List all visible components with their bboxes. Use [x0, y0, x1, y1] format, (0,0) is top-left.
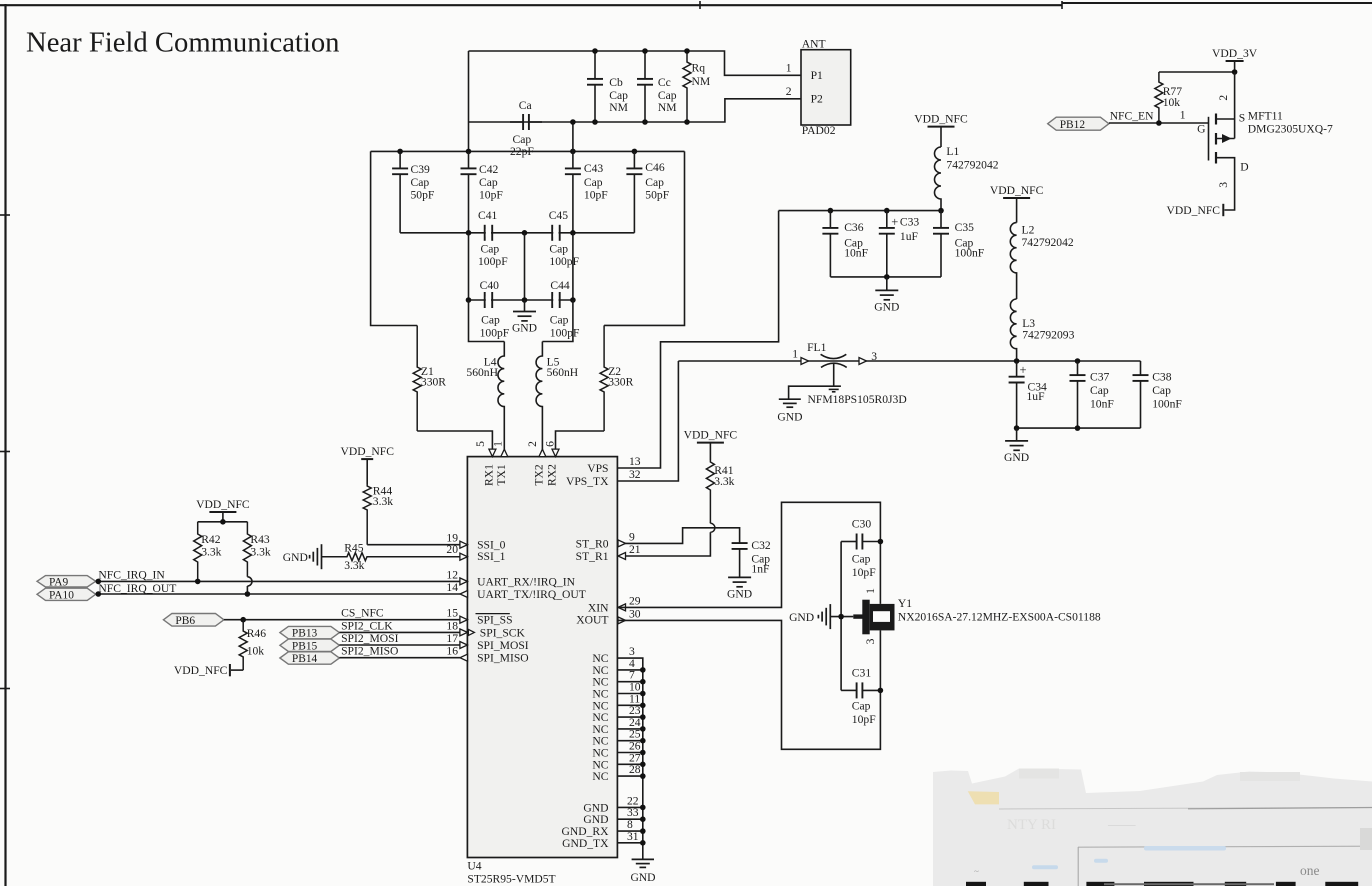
- svg-text:10pF: 10pF: [479, 188, 503, 201]
- capacitor Ca: [510, 114, 542, 130]
- svg-text:NC: NC: [592, 770, 608, 783]
- sheet frame left border: [4, 4, 6, 886]
- svg-text:Cap: Cap: [479, 176, 498, 189]
- pin 14 UART_TX: [460, 591, 468, 598]
- ic U4 ST25R95-VMD5T body: [467, 457, 617, 858]
- svg-text:P1: P1: [811, 69, 823, 82]
- pin 25 NC: [618, 740, 643, 742]
- svg-text:PA10: PA10: [49, 589, 74, 601]
- svg-text:SPI2_CLK: SPI2_CLK: [341, 619, 393, 632]
- svg-text:_____: _____: [1107, 815, 1136, 827]
- svg-text:Cap: Cap: [645, 176, 664, 189]
- svg-text:NM: NM: [658, 101, 677, 114]
- pin 9 ST_R0: [618, 540, 626, 547]
- svg-text:C40: C40: [480, 279, 500, 292]
- svg-text:VPS_TX: VPS_TX: [566, 475, 609, 488]
- svg-text:14: 14: [446, 581, 458, 594]
- svg-text:100pF: 100pF: [478, 255, 508, 268]
- wire XIN to crystal top: [618, 502, 880, 607]
- svg-text:C42: C42: [479, 163, 499, 176]
- svg-text:3.3k: 3.3k: [373, 495, 393, 508]
- wire rail2 y232.8: [400, 232, 634, 234]
- inductor L3: [1010, 299, 1016, 361]
- svg-text:100pF: 100pF: [480, 326, 510, 339]
- svg-text:C37: C37: [1090, 371, 1110, 384]
- pin 23 NC: [618, 716, 643, 718]
- svg-text:GND: GND: [727, 587, 752, 600]
- svg-text:10pF: 10pF: [584, 188, 608, 201]
- svg-text:Ca: Ca: [519, 99, 532, 112]
- capacitor C35: [933, 211, 949, 277]
- svg-text:VPS: VPS: [587, 462, 608, 475]
- svg-text:CS_NFC: CS_NFC: [341, 607, 384, 620]
- svg-text:PB15: PB15: [292, 640, 318, 652]
- pin 7 NC: [618, 681, 643, 683]
- svg-text:560nH: 560nH: [547, 366, 579, 379]
- svg-text:Cap: Cap: [550, 314, 569, 327]
- svg-text:G: G: [1197, 123, 1206, 136]
- svg-text:C30: C30: [852, 518, 872, 531]
- wire R42-R43 top rail: [198, 521, 248, 523]
- NC pin bus: [618, 658, 643, 859]
- svg-text:12: 12: [446, 568, 458, 581]
- svg-text:20: 20: [446, 543, 458, 556]
- pin 30 XOUT: [618, 617, 626, 624]
- svg-text:330R: 330R: [421, 376, 446, 389]
- svg-text:SSI_1: SSI_1: [477, 550, 506, 563]
- svg-text:GND: GND: [777, 410, 802, 423]
- svg-text:C41: C41: [478, 209, 498, 222]
- svg-text:Cap: Cap: [658, 89, 677, 102]
- svg-text:Near Field Communication: Near Field Communication: [26, 28, 340, 59]
- svg-text:2: 2: [1217, 95, 1230, 101]
- svg-text:330R: 330R: [608, 376, 633, 389]
- svg-text:C39: C39: [411, 163, 431, 176]
- svg-text:3: 3: [871, 350, 877, 363]
- capacitor Cc: [637, 51, 653, 122]
- svg-text:Cap: Cap: [481, 243, 500, 256]
- svg-text:XIN: XIN: [588, 601, 609, 614]
- antenna connector ANT PAD02: [801, 50, 851, 125]
- pin 2 TX2: [539, 449, 546, 457]
- svg-text:GND: GND: [874, 300, 899, 313]
- svg-text:C38: C38: [1152, 371, 1172, 384]
- svg-text:100nF: 100nF: [1152, 397, 1182, 410]
- pin 31 GND_TX: [618, 842, 643, 844]
- wire R44 to pin19: [367, 544, 460, 546]
- wire C30 C31 left vertical: [840, 542, 842, 691]
- svg-text:R43: R43: [250, 533, 270, 546]
- wire rail1 y151.4: [371, 150, 685, 152]
- capacitor C38: [1133, 361, 1149, 428]
- svg-text:RX2: RX2: [546, 464, 559, 486]
- wire VPS_TX net pin32 to FL1: [618, 361, 678, 481]
- resistor R77: [1155, 72, 1163, 123]
- capacitor C41: [484, 225, 486, 241]
- svg-text:ST_R1: ST_R1: [576, 550, 609, 563]
- svg-text:9: 9: [629, 530, 635, 543]
- svg-text:10pF: 10pF: [852, 566, 876, 579]
- svg-text:L2: L2: [1022, 223, 1035, 236]
- svg-text:C35: C35: [955, 221, 975, 234]
- svg-text:PB12: PB12: [1060, 119, 1086, 131]
- svg-text:100pF: 100pF: [549, 255, 579, 268]
- pin 26 NC: [618, 752, 643, 754]
- svg-text:10k: 10k: [247, 644, 265, 657]
- svg-text:MFT11: MFT11: [1248, 110, 1283, 123]
- resistor R43: [243, 522, 251, 577]
- svg-text:PA9: PA9: [49, 576, 69, 588]
- svg-text:SPI_MOSI: SPI_MOSI: [477, 639, 529, 652]
- svg-text:VDD_NFC: VDD_NFC: [340, 445, 394, 458]
- port PB15: [280, 639, 340, 651]
- svg-text:VDD_NFC: VDD_NFC: [914, 112, 968, 125]
- resistor Z1: [371, 151, 418, 325]
- wire VPS net from rail to pin13: [618, 211, 779, 468]
- ground below C34: [1016, 428, 1018, 441]
- svg-text:U4: U4: [467, 860, 481, 873]
- svg-text:1: 1: [491, 441, 504, 447]
- pin 28 NC: [618, 775, 643, 777]
- svg-text:Cap: Cap: [513, 133, 532, 146]
- pin 11 NC: [618, 704, 643, 706]
- wire R77 top: [1159, 71, 1235, 73]
- ground for R45: [321, 544, 323, 569]
- capacitor C30: [841, 534, 880, 550]
- svg-text:Cb: Cb: [609, 76, 623, 89]
- svg-text:1uF: 1uF: [1027, 390, 1046, 403]
- svg-text:+: +: [891, 215, 898, 229]
- svg-text:1: 1: [786, 62, 792, 75]
- svg-text:17: 17: [446, 632, 458, 645]
- wire FL1 rail y361: [678, 360, 1140, 362]
- svg-text:18: 18: [446, 619, 458, 632]
- svg-text:Cap: Cap: [481, 314, 500, 327]
- resistor R41: [706, 460, 714, 522]
- svg-text:1: 1: [864, 588, 877, 594]
- svg-text:2: 2: [526, 441, 539, 447]
- svg-text:PB6: PB6: [175, 615, 195, 627]
- resistor R44: [363, 484, 371, 545]
- capacitor C31: [841, 682, 880, 698]
- svg-text:C46: C46: [645, 161, 665, 174]
- pin 8 GND_RX: [618, 830, 643, 832]
- svg-text:VDD_NFC: VDD_NFC: [174, 664, 228, 677]
- svg-text:Rq: Rq: [692, 62, 706, 75]
- svg-text:GND: GND: [789, 611, 814, 624]
- svg-text:C44: C44: [550, 279, 570, 292]
- wire rail3 y300: [469, 299, 573, 301]
- svg-text:NFC_EN: NFC_EN: [1110, 109, 1154, 122]
- svg-text:Cc: Cc: [658, 76, 671, 89]
- svg-text:one: one: [1300, 863, 1320, 878]
- svg-text:10k: 10k: [1163, 96, 1181, 109]
- capacitor C34 polarized: [1009, 361, 1025, 428]
- port PA10: [37, 588, 96, 600]
- ground below cap ladder: [524, 300, 526, 312]
- port PA9: [37, 576, 96, 587]
- pin 6 RX2: [552, 449, 559, 457]
- resistor Rq: [683, 51, 691, 122]
- svg-text:Cap: Cap: [549, 243, 568, 256]
- svg-text:~: ~: [974, 867, 979, 877]
- pin 5 RX1: [489, 449, 496, 457]
- svg-text:28: 28: [629, 763, 641, 776]
- wire VPS rail y210.6: [779, 210, 941, 212]
- pin 20 SSI_1: [460, 553, 468, 560]
- watermark bottom strip glyph fragments: [966, 882, 986, 886]
- svg-text:NM: NM: [609, 101, 628, 114]
- pin 24 NC: [618, 728, 643, 730]
- pin 19 SSI_0: [460, 541, 468, 548]
- capacitor C33 polarized: [879, 211, 895, 277]
- svg-text:1: 1: [1180, 109, 1186, 122]
- port PB12: [1048, 117, 1109, 130]
- ground below C32: [739, 576, 741, 578]
- svg-text:3: 3: [864, 638, 877, 644]
- ground below U4: [632, 858, 654, 860]
- svg-text:C36: C36: [844, 221, 864, 234]
- svg-text:SPI_SCK: SPI_SCK: [480, 626, 526, 639]
- resistor Z2: [604, 151, 684, 325]
- capacitor C46: [626, 151, 642, 232]
- svg-text:+: +: [1020, 363, 1027, 377]
- inductor L2: [1010, 223, 1016, 299]
- svg-text:GND: GND: [630, 871, 655, 884]
- capacitor C44: [551, 292, 553, 308]
- svg-text:3: 3: [1217, 182, 1230, 188]
- svg-text:SPI_MISO: SPI_MISO: [477, 652, 529, 665]
- inductor L5: [542, 300, 573, 342]
- svg-text:VDD_NFC: VDD_NFC: [1167, 204, 1221, 217]
- capacitor C45: [551, 225, 553, 241]
- svg-text:100nF: 100nF: [955, 246, 985, 259]
- svg-text:10nF: 10nF: [844, 246, 868, 259]
- svg-text:GND: GND: [283, 551, 308, 564]
- svg-text:1uF: 1uF: [900, 230, 919, 243]
- port PB14: [280, 652, 340, 664]
- svg-text:PAD02: PAD02: [802, 124, 836, 137]
- svg-text:R42: R42: [201, 533, 221, 546]
- svg-text:D: D: [1240, 161, 1248, 174]
- svg-text:2: 2: [786, 85, 792, 98]
- svg-text:L1: L1: [946, 145, 959, 158]
- svg-text:R46: R46: [247, 627, 267, 640]
- svg-text:3.3k: 3.3k: [714, 475, 734, 488]
- capacitor C42: [461, 151, 477, 232]
- svg-text:C45: C45: [549, 209, 569, 222]
- resistor R45: [322, 553, 461, 561]
- pin 18 SPI_SCK: [460, 629, 468, 636]
- svg-text:ST_R0: ST_R0: [576, 537, 609, 550]
- pin 16 SPI_MISO: [460, 654, 468, 661]
- resistor R42: [194, 522, 202, 582]
- svg-text:SPI2_MOSI: SPI2_MOSI: [341, 632, 398, 645]
- svg-text:P2: P2: [811, 93, 823, 106]
- svg-text:VDD_3V: VDD_3V: [1212, 47, 1258, 60]
- svg-text:15: 15: [446, 607, 458, 620]
- power VDD_NFC at R46 bottom: [231, 669, 243, 671]
- pin 15 SPI_SS: [460, 616, 468, 623]
- svg-text:FL1: FL1: [807, 341, 827, 354]
- inductor L4: [469, 300, 505, 342]
- wire SPI2_MOSI: [339, 644, 460, 646]
- svg-text:21: 21: [629, 543, 641, 556]
- svg-text:GND: GND: [1004, 451, 1029, 464]
- svg-text:PB14: PB14: [292, 653, 318, 665]
- svg-text:29: 29: [629, 594, 641, 607]
- svg-text:TX2: TX2: [533, 464, 546, 485]
- inductor L1: [935, 147, 941, 211]
- capacitor C43: [565, 151, 581, 232]
- svg-text:30: 30: [629, 607, 641, 620]
- svg-text:UART_TX/!IRQ_OUT: UART_TX/!IRQ_OUT: [477, 588, 586, 601]
- pin 27 NC: [618, 763, 643, 765]
- wire SPI2_CLK: [339, 631, 460, 633]
- pin 17 SPI_MOSI: [460, 642, 468, 649]
- svg-text:10pF: 10pF: [852, 713, 876, 726]
- svg-text:GND_TX: GND_TX: [562, 837, 609, 850]
- wire pin9 to C32: [618, 528, 740, 544]
- svg-text:Cap: Cap: [852, 553, 871, 566]
- wire NFC_IRQ_IN: [96, 580, 460, 582]
- svg-text:50pF: 50pF: [645, 188, 669, 201]
- svg-text:S: S: [1239, 111, 1245, 124]
- pin 21 ST_R1: [618, 553, 626, 560]
- svg-text:XOUT: XOUT: [576, 614, 608, 627]
- crystal Y1 NX2016SA: [853, 614, 863, 618]
- wire XOUT to crystal bottom: [618, 620, 880, 749]
- wire top rail y51: [469, 51, 802, 75]
- svg-text:DMG2305UXQ-7: DMG2305UXQ-7: [1248, 123, 1333, 136]
- wire C36-C35 bottom rail: [830, 276, 941, 278]
- svg-text:1nF: 1nF: [751, 563, 770, 576]
- svg-text:PB13: PB13: [292, 628, 318, 640]
- svg-text:Cap: Cap: [411, 176, 430, 189]
- svg-text:3.3k: 3.3k: [201, 545, 221, 558]
- svg-text:NFM18PS105R0J3D: NFM18PS105R0J3D: [808, 393, 907, 406]
- svg-text:C33: C33: [900, 216, 920, 229]
- svg-text:ST25R95-VMD5T: ST25R95-VMD5T: [467, 873, 555, 886]
- svg-text:VDD_NFC: VDD_NFC: [684, 428, 738, 441]
- port PB6: [163, 614, 224, 627]
- svg-text:C43: C43: [584, 162, 604, 175]
- wire bottom rail C34-C38: [1017, 427, 1141, 429]
- svg-text:100pF: 100pF: [550, 326, 580, 339]
- pin 22 GND: [618, 806, 643, 808]
- svg-text:SPI2_MISO: SPI2_MISO: [341, 645, 398, 658]
- svg-text:32: 32: [629, 468, 641, 481]
- svg-text:UART_RX/!IRQ_IN: UART_RX/!IRQ_IN: [477, 575, 575, 588]
- svg-text:13: 13: [629, 455, 641, 468]
- svg-text:742792042: 742792042: [1022, 236, 1074, 249]
- capacitor C39: [392, 151, 408, 232]
- wire NFC_EN: [1109, 122, 1209, 124]
- wire C43 stub: [572, 122, 574, 151]
- svg-text:Cap: Cap: [609, 89, 628, 102]
- capacitor C32: [732, 541, 748, 578]
- svg-text:R45: R45: [344, 541, 364, 554]
- ground below C33: [886, 277, 888, 291]
- wire R41 to pin21 with hop: [709, 522, 711, 523]
- svg-text:NX2016SA-27.12MHZ-EXS00A-CS011: NX2016SA-27.12MHZ-EXS00A-CS01188: [898, 611, 1101, 624]
- svg-text:GND: GND: [512, 321, 537, 334]
- svg-text:560nH: 560nH: [466, 366, 498, 379]
- svg-text:Cap: Cap: [584, 176, 603, 189]
- svg-text:NTY RI: NTY RI: [1007, 817, 1056, 833]
- svg-text:Y1: Y1: [898, 597, 912, 610]
- port PB13: [280, 626, 340, 638]
- svg-text:NFC_IRQ_IN: NFC_IRQ_IN: [98, 569, 165, 582]
- svg-text:10nF: 10nF: [1090, 397, 1114, 410]
- pin 12 UART_RX: [460, 578, 468, 585]
- sheet frame top border: [0, 4, 1062, 6]
- pin 10 NC: [618, 693, 643, 695]
- svg-text:Cap: Cap: [852, 699, 871, 712]
- wire NFC_IRQ_OUT: [96, 593, 460, 595]
- pin 1 TX1: [501, 449, 508, 457]
- svg-text:ANT: ANT: [802, 37, 826, 50]
- svg-text:31: 31: [627, 830, 639, 843]
- svg-text:Cap: Cap: [1152, 384, 1171, 397]
- capacitor C40: [484, 292, 486, 308]
- capacitor C37: [1075, 358, 1081, 364]
- svg-text:RX1: RX1: [483, 464, 496, 486]
- svg-text:3.3k: 3.3k: [250, 545, 270, 558]
- svg-text:Cap: Cap: [1090, 384, 1109, 397]
- ground tap of FL1: [789, 386, 841, 399]
- pin 33 GND: [618, 818, 643, 820]
- pin 29 XIN: [618, 604, 626, 611]
- pin 4 NC: [618, 669, 643, 671]
- wire CS_NFC: [224, 619, 460, 621]
- svg-text:VDD_NFC: VDD_NFC: [990, 184, 1044, 197]
- svg-text:NFC_IRQ_OUT: NFC_IRQ_OUT: [98, 582, 176, 595]
- svg-text:50pF: 50pF: [411, 188, 435, 201]
- svg-text:NM: NM: [692, 75, 711, 88]
- svg-text:VDD_NFC: VDD_NFC: [196, 498, 250, 511]
- wire SPI2_MISO: [339, 657, 460, 659]
- capacitor C36: [822, 211, 838, 277]
- svg-text:742792093: 742792093: [1022, 329, 1074, 342]
- svg-text:5: 5: [474, 441, 487, 447]
- svg-text:SPI_SS: SPI_SS: [477, 614, 512, 627]
- watermark area: [933, 769, 1372, 886]
- svg-text:16: 16: [446, 645, 458, 658]
- capacitor Cb: [587, 51, 603, 122]
- svg-text:3.3k: 3.3k: [344, 559, 364, 572]
- wire Ca rail y122: [468, 51, 470, 151]
- wire rail2-rail3 verticals: [469, 233, 573, 300]
- svg-text:6: 6: [544, 441, 557, 447]
- svg-text:1: 1: [792, 348, 798, 361]
- svg-text:742792042: 742792042: [946, 159, 998, 172]
- svg-text:C32: C32: [751, 539, 771, 552]
- svg-text:C31: C31: [852, 667, 872, 680]
- resistor R46: [239, 620, 247, 670]
- svg-text:TX1: TX1: [495, 464, 508, 485]
